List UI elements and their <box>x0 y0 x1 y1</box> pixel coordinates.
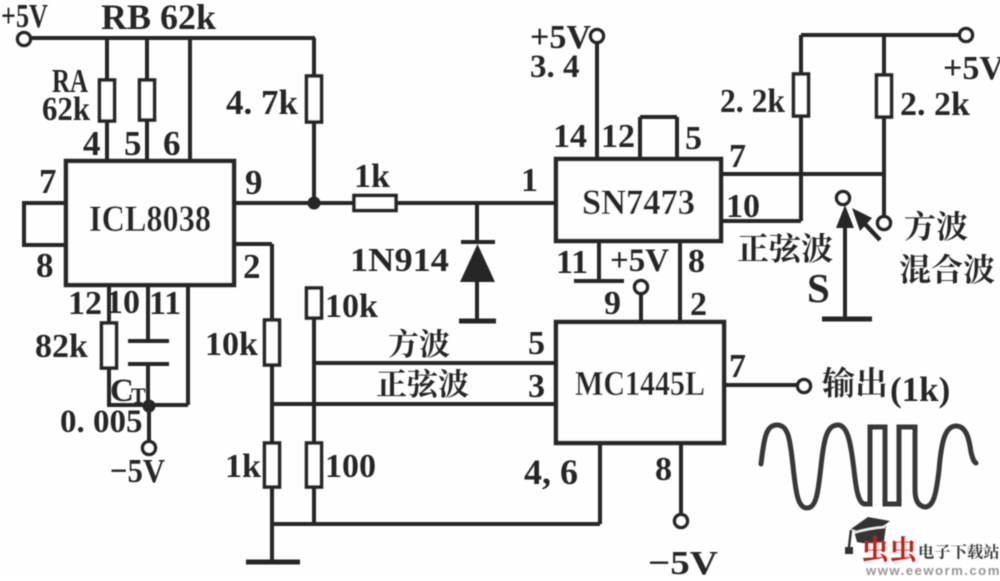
svg-text:ICL8038: ICL8038 <box>89 199 211 240</box>
svg-text:RB 62k: RB 62k <box>101 0 216 37</box>
svg-text:11: 11 <box>556 244 588 281</box>
svg-text:3. 4: 3. 4 <box>530 49 580 85</box>
svg-text:5: 5 <box>124 124 142 163</box>
label sine wave left <box>377 369 406 396</box>
svg-text:4, 6: 4, 6 <box>524 452 578 492</box>
waveform sine-square <box>761 425 976 508</box>
wire top rail <box>30 36 315 40</box>
wire square line <box>314 361 556 365</box>
label square wave left <box>389 329 418 358</box>
svg-text:1k: 1k <box>354 158 390 195</box>
svg-text:S: S <box>807 265 830 311</box>
label mixed wave <box>900 254 930 284</box>
resistor 82k <box>107 285 111 323</box>
wire pin2 <box>234 242 272 246</box>
resistor RA 62k <box>105 38 109 80</box>
+5V terminal top-left <box>18 33 31 46</box>
svg-text:10k: 10k <box>205 326 258 363</box>
svg-text:+5V: +5V <box>610 243 669 279</box>
svg-text:11: 11 <box>149 285 181 322</box>
svg-text:9: 9 <box>245 163 263 202</box>
resistor 1k series <box>354 196 396 211</box>
+5V terminal over SN7473 <box>591 30 604 43</box>
svg-text:2: 2 <box>690 286 707 323</box>
switch select arrow <box>863 222 880 240</box>
pin 7-8 loop <box>24 201 66 205</box>
svg-text:+5V: +5V <box>943 50 1000 87</box>
svg-text:(1k): (1k) <box>890 370 950 409</box>
diode 1N914 <box>475 203 479 242</box>
resistor 1k lower <box>265 443 280 487</box>
svg-text:2. 2k: 2. 2k <box>720 83 785 120</box>
-5V terminal <box>143 442 156 455</box>
wire pin 10 <box>721 219 801 223</box>
switch contact square <box>878 217 891 230</box>
svg-text:10k: 10k <box>325 288 378 325</box>
svg-text:−5V: −5V <box>648 545 719 576</box>
resistor RB body <box>145 38 149 80</box>
jumper pins 12-5 <box>638 117 642 159</box>
svg-text:6: 6 <box>163 124 181 163</box>
svg-text:3: 3 <box>528 368 545 405</box>
switch base bar <box>822 317 872 322</box>
resistor 10k left <box>265 320 280 365</box>
node CT junction <box>143 400 156 413</box>
resistor 10k right <box>307 288 322 318</box>
svg-text:12: 12 <box>68 285 102 322</box>
ground <box>246 560 300 565</box>
svg-text:0. 005: 0. 005 <box>60 404 143 440</box>
svg-text:1N914: 1N914 <box>350 242 449 279</box>
svg-text:5: 5 <box>685 120 702 157</box>
svg-text:9: 9 <box>604 285 621 322</box>
resistor 2.2k #1 <box>799 35 803 74</box>
svg-text:14: 14 <box>553 118 587 155</box>
switch lever arrow <box>843 224 847 318</box>
svg-text:82k: 82k <box>35 328 88 365</box>
svg-text:4: 4 <box>83 124 101 163</box>
switch contact mixed <box>837 192 850 205</box>
capacitor CT <box>146 285 150 341</box>
label output <box>822 366 854 397</box>
resistor 100 <box>307 443 322 487</box>
logo graduation cap <box>845 517 890 554</box>
svg-text:7: 7 <box>39 162 57 201</box>
wire pin6 from rail <box>188 38 192 163</box>
svg-text:7: 7 <box>729 348 746 385</box>
svg-text:2. 2k: 2. 2k <box>900 86 970 123</box>
svg-text:4. 7k: 4. 7k <box>226 83 299 122</box>
svg-text:www.eeworm.com: www.eeworm.com <box>865 563 1000 576</box>
wire pin 7 out <box>724 383 797 387</box>
logo site name <box>920 544 934 559</box>
svg-text:+5V: +5V <box>1 0 48 35</box>
svg-text:1k: 1k <box>225 448 261 485</box>
svg-text:1: 1 <box>521 162 538 199</box>
svg-text:10: 10 <box>106 284 140 321</box>
svg-text:7: 7 <box>729 138 746 175</box>
svg-text:62k: 62k <box>42 91 90 128</box>
wire pin9 to node <box>234 201 354 205</box>
svg-text:8: 8 <box>655 451 672 488</box>
resistor 2.2k #2 <box>882 35 886 75</box>
logo chongchong red <box>863 536 887 562</box>
svg-text:12: 12 <box>601 118 635 155</box>
wire +5V rail right <box>801 33 960 37</box>
op-amp U3 MC1445L <box>556 322 724 443</box>
svg-text:100: 100 <box>325 448 376 485</box>
wire pin 7 <box>721 172 884 176</box>
op-amp U2 SN7473 <box>556 159 721 241</box>
svg-text:8: 8 <box>36 246 54 285</box>
op-amp U1 ICL8038 <box>66 161 234 285</box>
svg-text:−5V: −5V <box>110 453 165 490</box>
resistor 4.7k <box>312 38 316 76</box>
node junction <box>308 197 321 210</box>
svg-text:2: 2 <box>243 247 261 286</box>
wire pin11 down <box>186 285 190 405</box>
wire bottom return <box>272 522 600 526</box>
svg-text:SN7473: SN7473 <box>582 182 695 222</box>
svg-text:MC1445L: MC1445L <box>575 364 705 403</box>
svg-text:8: 8 <box>688 243 705 280</box>
label square wave right <box>905 211 935 241</box>
svg-text:5: 5 <box>528 325 545 362</box>
wire sine line <box>272 402 556 406</box>
wire bottom joining <box>109 403 188 407</box>
label sine wave right <box>738 233 768 261</box>
